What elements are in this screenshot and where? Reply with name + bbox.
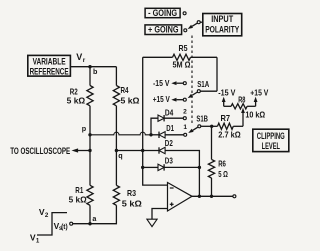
- S1B contact 1: [184, 133, 187, 136]
- svg-text:V: V: [76, 52, 82, 62]
- wire D4 to contact 2: [164, 117, 183, 119]
- label box VARIABLE REFERENCE: [28, 55, 71, 76]
- output terminal: [233, 195, 236, 198]
- op-amp U1: [168, 183, 193, 212]
- node b: [88, 65, 91, 68]
- node oscilloscope tap: [88, 149, 91, 152]
- svg-text:b: b: [93, 67, 98, 76]
- svg-text:R6: R6: [218, 159, 226, 168]
- diode D3: [158, 164, 164, 170]
- step waveform symbol: [37, 213, 67, 235]
- svg-text:R3: R3: [127, 189, 136, 198]
- svg-text:(t): (t): [61, 222, 68, 231]
- wire b row down to R4: [115, 67, 117, 86]
- wire R7 node down to R6: [211, 126, 213, 159]
- wire to oscilloscope with arrow: [78, 150, 91, 152]
- svg-text:2: 2: [45, 212, 49, 219]
- resistor R7: [212, 125, 218, 127]
- node R5/D2 junction: [141, 149, 144, 152]
- wire R5 right leg down to S1A wiper: [216, 57, 218, 91]
- svg-text:5 kΩ: 5 kΩ: [67, 96, 86, 105]
- label box "- GOING": [145, 8, 180, 17]
- svg-text:D1: D1: [166, 124, 174, 133]
- diode D1: [159, 132, 165, 138]
- wire D1 to contact 1: [165, 134, 184, 136]
- resistor R4: [113, 86, 119, 106]
- svg-text:D4: D4: [165, 108, 174, 117]
- S1A contact +15V: [183, 98, 186, 101]
- resistor R6: [208, 159, 214, 178]
- svg-text:5M Ω: 5M Ω: [173, 61, 191, 70]
- svg-text:LEVEL: LEVEL: [262, 140, 281, 151]
- resistor R2: [87, 86, 93, 106]
- wire q row to D2: [116, 150, 158, 152]
- svg-text:R4: R4: [121, 86, 129, 95]
- wire D2 to output leg: [165, 151, 200, 197]
- wire D3 to output leg: [164, 166, 199, 168]
- S1 contact -GOING: [183, 12, 186, 15]
- wire D3: [143, 166, 159, 168]
- resistor R3: [113, 185, 119, 205]
- svg-text:2.7 kΩ: 2.7 kΩ: [218, 130, 241, 139]
- wire D4 left leg: [151, 118, 158, 135]
- node q: [115, 149, 118, 152]
- svg-text:R7: R7: [221, 114, 231, 123]
- svg-text:POLARITY: POLARITY: [205, 24, 240, 35]
- wire b row: [70, 66, 116, 68]
- node p: [88, 133, 91, 136]
- switch S1B wiper: [198, 125, 201, 128]
- resistor R8: [224, 105, 231, 107]
- wire S1A wiper to R5: [200, 90, 217, 92]
- svg-text:-15 V: -15 V: [153, 79, 170, 88]
- resistor R1: [87, 185, 93, 205]
- svg-text:TO OSCILLOSCOPE: TO OSCILLOSCOPE: [10, 146, 70, 156]
- wire p row with hops over R4 line and R5 line: [90, 132, 151, 135]
- label box CLIPPING LEVEL: [253, 129, 289, 151]
- node D3 left junction: [141, 166, 144, 169]
- diode D4: [158, 115, 164, 121]
- wire R2 bottom to R1 top: [89, 106, 91, 186]
- wire R5 left leg down to summing node: [143, 57, 168, 185]
- svg-text:5 kΩ: 5 kΩ: [122, 200, 142, 209]
- wire op-amp output: [192, 195, 233, 197]
- wire R4 bottom to R3 top: [115, 106, 117, 186]
- resistor R5: [143, 56, 173, 58]
- wire R3 bottom corner to node a: [90, 205, 116, 223]
- wire D1: [151, 134, 159, 136]
- svg-text:2: 2: [183, 109, 187, 116]
- svg-text:10 kΩ: 10 kΩ: [245, 110, 265, 119]
- svg-text:5 kΩ: 5 kΩ: [69, 196, 87, 205]
- S1B contact 2: [183, 117, 186, 120]
- S1A contact -15V: [183, 82, 186, 85]
- wire R1 bottom to node a: [89, 205, 91, 223]
- wire Vs to node a: [73, 223, 90, 225]
- svg-text:5 kΩ: 5 kΩ: [121, 96, 140, 105]
- svg-text:1: 1: [183, 124, 187, 131]
- svg-text:R5: R5: [179, 44, 188, 53]
- svg-text:q: q: [118, 151, 122, 160]
- diode D2: [159, 147, 165, 153]
- S1 contact +GOING: [184, 29, 187, 32]
- svg-text:5 Ω: 5 Ω: [218, 170, 228, 179]
- switch S1A wiper: [197, 90, 200, 93]
- svg-text:D2: D2: [165, 139, 173, 148]
- node D3 right junction: [198, 166, 201, 169]
- svg-text:REFERENCE: REFERENCE: [30, 66, 69, 77]
- wire D2: [159, 150, 165, 152]
- node output/R6: [210, 195, 213, 198]
- svg-text:- GOING: - GOING: [148, 8, 177, 18]
- svg-text:D3: D3: [165, 156, 173, 165]
- switch gang dashed link: [191, 36, 193, 124]
- label box "+ GOING": [145, 25, 182, 35]
- node a: [88, 222, 91, 225]
- svg-text:+15 V: +15 V: [250, 88, 268, 97]
- node R7/R6 junction: [210, 125, 213, 128]
- svg-text:R8: R8: [238, 95, 246, 104]
- svg-text:+15 V: +15 V: [153, 95, 170, 104]
- R8 wiper arrow: [242, 112, 244, 126]
- svg-text:R1: R1: [75, 186, 83, 195]
- switch S1 wiper (input polarity): [197, 21, 200, 24]
- svg-text:-15 V: -15 V: [218, 88, 236, 97]
- label box INPUT POLARITY: [203, 14, 242, 36]
- svg-text:S1B: S1B: [196, 114, 208, 123]
- svg-text:S1A: S1A: [197, 80, 209, 89]
- wire non-inverting input to ground: [152, 209, 168, 220]
- wire wiper to INPUT POLARITY box: [200, 21, 203, 23]
- wire S1B wiper to R7 node: [201, 125, 212, 127]
- wire bus b to R2 top: [89, 67, 91, 86]
- svg-text:1: 1: [36, 238, 40, 245]
- wire R6 bottom to output: [211, 178, 213, 196]
- node output/D-leg: [198, 195, 201, 198]
- wire R7 to R8 wiper: [233, 125, 243, 127]
- node D1/D4 junction: [149, 133, 152, 136]
- ground: [147, 219, 157, 226]
- source terminal Vs(t): [70, 222, 73, 225]
- svg-text:+ GOING: + GOING: [148, 25, 179, 35]
- svg-text:p: p: [82, 124, 87, 133]
